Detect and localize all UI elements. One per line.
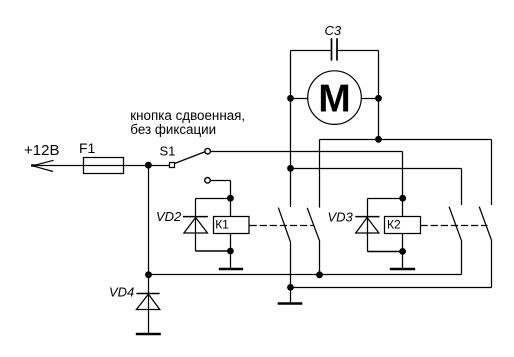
capacitor C3 plates — [332, 38, 338, 60]
wire horizontal motor-left to right contact 1 — [291, 168, 462, 170]
diode VD3 — [355, 217, 379, 233]
wire right contact 1 bottom vertical — [461, 240, 463, 275]
wire left contact 2 bottom vertical — [319, 241, 321, 274]
svg-text:VD3: VD3 — [328, 210, 354, 225]
wire right contact 2 bottom vertical — [491, 240, 493, 288]
switch S1 blade — [175, 152, 205, 164]
wire vertical from fuse junction down to bottom rail — [148, 166, 150, 275]
node junction after fuse — [145, 162, 152, 169]
relay coil K1 box — [214, 217, 250, 234]
svg-text:К2: К2 — [387, 218, 401, 232]
node right branch tee — [375, 136, 382, 143]
wire horizontal upper right rail — [320, 139, 492, 141]
node motor left tee — [287, 165, 294, 172]
ground K1 — [219, 268, 243, 271]
wire K1 top tee to VD2 — [196, 199, 231, 252]
svg-text:К1: К1 — [215, 218, 229, 232]
svg-text:M: M — [318, 77, 351, 120]
wire top left to capacitor — [291, 50, 331, 52]
motor M1 circle — [308, 71, 362, 125]
wire +12V feed horizontal — [31, 165, 170, 167]
svg-text:C3: C3 — [325, 23, 342, 38]
node rail1 left — [145, 271, 152, 278]
arrow +12V input — [31, 160, 53, 171]
wire VD4 vertical — [148, 275, 150, 333]
wire vertical drop to K2 coil — [402, 152, 404, 199]
svg-text:кнопка сдвоенная,: кнопка сдвоенная, — [130, 108, 245, 123]
wire capacitor to top right — [338, 50, 379, 52]
svg-text:F1: F1 — [79, 140, 96, 156]
relay contact blade right 1 — [449, 207, 461, 241]
mechanical link K2 dashed — [421, 225, 488, 227]
svg-text:без фиксации: без фиксации — [130, 122, 216, 137]
fuse F1 — [84, 158, 124, 174]
diode VD4 — [136, 294, 159, 310]
relay coil K2 box — [385, 217, 421, 234]
relay contact blade left 2 — [307, 208, 320, 242]
wire K2 top tee to VD3 — [368, 199, 403, 252]
wire right contact 1 top vertical — [461, 169, 463, 206]
mechanical link K1 dashed — [250, 225, 315, 227]
wire right vertical motor branch — [378, 51, 380, 140]
node motor right — [375, 95, 382, 102]
node K1 coil top — [227, 195, 234, 202]
wire left contact 1 bottom vertical — [290, 241, 292, 302]
node rail1 contact2 — [316, 271, 323, 278]
wire K2 coil leads — [402, 199, 404, 269]
node K2 coil bottom — [399, 248, 406, 255]
diode VD2 — [183, 217, 208, 233]
svg-text:VD4: VD4 — [109, 285, 134, 300]
switch S1 pole contact square — [170, 163, 175, 168]
switch S1 fixed contact circle top — [205, 148, 211, 154]
relay contact blade right 2 — [479, 207, 491, 241]
svg-text:S1: S1 — [160, 144, 176, 159]
wire right contact 2 top vertical — [491, 140, 493, 206]
node motor left — [287, 95, 294, 102]
node K1 coil bottom — [227, 248, 234, 255]
wire left vertical motor branch — [290, 51, 292, 208]
ground VD4 — [136, 333, 161, 336]
wire K1 coil leads — [230, 199, 232, 268]
node K2 coil top — [399, 195, 406, 202]
wire left contact 2 top vertical — [319, 140, 321, 208]
wire S1 second pole to K1 coil — [211, 181, 231, 199]
wire S1 output to K2 drop — [211, 151, 402, 153]
svg-text:VD2: VD2 — [156, 209, 182, 224]
wire motor right lead — [361, 98, 378, 100]
ground K2 — [390, 268, 415, 271]
wire motor left lead — [291, 98, 308, 100]
node rail2 ground — [287, 284, 294, 291]
switch S1 second pole circle — [205, 178, 211, 184]
ground middle — [278, 302, 303, 305]
svg-text:+12В: +12В — [24, 142, 59, 159]
wire bottom rail 2 — [291, 287, 492, 289]
wire bottom rail 1 — [149, 274, 462, 276]
relay contact blade left 1 — [278, 208, 290, 242]
